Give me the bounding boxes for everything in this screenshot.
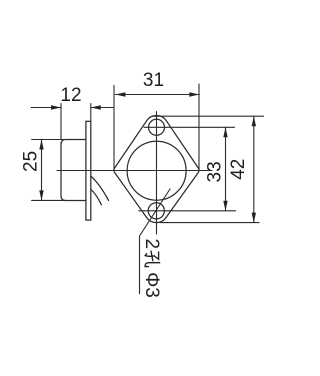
- arrow 33 bottom (pointing down): [223, 201, 227, 211]
- arrow 12 right (pointing left): [91, 105, 101, 109]
- note 2孔 Φ3 rotated 90deg reading downward: [141, 239, 162, 298]
- vertical centerline: [156, 112, 158, 235]
- svg-text:33: 33: [205, 161, 226, 182]
- arrow 33 top (pointing up): [223, 127, 227, 137]
- top hole: [149, 119, 165, 135]
- 42 top extension line: [152, 115, 264, 117]
- dim line 33: [225, 127, 227, 211]
- bottom hole: [148, 203, 164, 219]
- 31 left extension line: [113, 86, 115, 171]
- 25 top extension line: [32, 139, 66, 141]
- 12 right extension line: [90, 104, 92, 122]
- arrow 42 top (pointing up): [252, 116, 256, 126]
- 12 dim right arrow tail: [91, 107, 114, 109]
- leader line diagonal: [140, 189, 171, 294]
- hanzi KONG (hole) drawn as strokes: [145, 251, 160, 267]
- arrow 12 left (pointing right): [51, 105, 61, 109]
- svg-text:25: 25: [21, 151, 42, 172]
- arrow 25 top (pointing up): [39, 140, 43, 150]
- svg-text:Φ3: Φ3: [141, 272, 162, 298]
- horizontal centerline: [57, 170, 212, 172]
- svg-text:31: 31: [143, 70, 164, 91]
- top hole horizontal line / 33 top extension: [144, 126, 235, 128]
- dim line 42: [253, 116, 255, 222]
- svg-text:42: 42: [228, 159, 249, 180]
- dim line 31: [115, 94, 199, 96]
- side view body: [61, 140, 86, 201]
- dim line 25: [41, 140, 43, 201]
- arrow 31 right (pointing right): [189, 92, 199, 96]
- 12 dim left arrow tail: [31, 107, 61, 109]
- 31 right extension line: [198, 84, 200, 170]
- 42 bottom extension line: [160, 222, 259, 224]
- svg-text:2: 2: [141, 239, 162, 250]
- curly surface curve lower: [91, 190, 101, 205]
- curly surface curve upper: [91, 176, 108, 200]
- arrow 25 bottom (pointing down): [39, 190, 43, 200]
- side view flange plate: [86, 121, 91, 220]
- svg-text:12: 12: [60, 85, 81, 106]
- diamond flange outline: [114, 115, 199, 222]
- arrow 31 left (pointing left): [115, 92, 125, 96]
- arrow 42 bottom (pointing down): [252, 213, 256, 223]
- big circle: [127, 141, 186, 200]
- 12 left extension line: [60, 104, 62, 140]
- 25 bottom extension line: [32, 199, 66, 201]
- bottom hole horizontal line / 33 bottom extension: [139, 210, 236, 212]
